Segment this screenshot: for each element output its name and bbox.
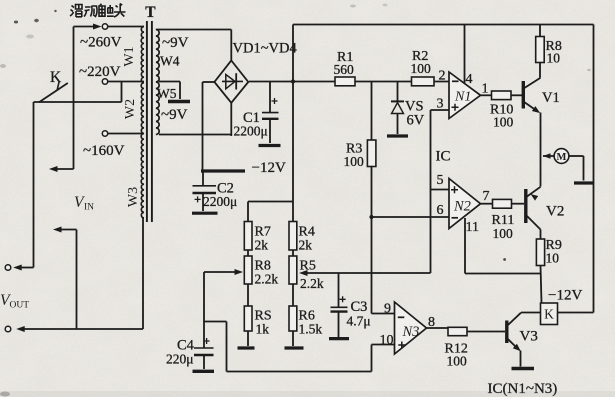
svg-text:2200μ: 2200μ [234, 124, 268, 139]
svg-text:6V: 6V [407, 113, 425, 129]
svg-text:100: 100 [447, 354, 468, 369]
svg-text:3: 3 [437, 97, 444, 112]
svg-text:V2: V2 [546, 204, 564, 220]
svg-text:6: 6 [437, 203, 444, 218]
svg-text:11: 11 [466, 220, 479, 235]
svg-text:W4: W4 [160, 54, 180, 69]
svg-text:W3: W3 [126, 187, 141, 207]
svg-text:2k: 2k [255, 238, 269, 253]
svg-text:V3: V3 [520, 329, 538, 345]
svg-text:~220V: ~220V [79, 64, 121, 80]
svg-text:W1: W1 [122, 46, 137, 66]
svg-text:W2: W2 [123, 99, 138, 119]
svg-text:−12V: −12V [252, 160, 286, 176]
svg-text:220μ: 220μ [166, 352, 194, 367]
svg-text:N1: N1 [454, 90, 471, 105]
svg-text:OUT: OUT [10, 301, 30, 311]
svg-text:2.2k: 2.2k [255, 272, 279, 287]
svg-text:560: 560 [334, 62, 355, 77]
svg-text:IN: IN [84, 203, 94, 213]
svg-text:V1: V1 [542, 90, 560, 106]
svg-text:100: 100 [411, 61, 432, 76]
svg-text:1.5k: 1.5k [299, 322, 323, 337]
svg-text:N2: N2 [453, 199, 471, 215]
svg-text:W5: W5 [157, 86, 177, 101]
svg-text:N3: N3 [402, 324, 420, 340]
svg-text:4: 4 [466, 72, 473, 87]
svg-text:10: 10 [547, 51, 561, 66]
svg-text:K: K [50, 69, 62, 86]
svg-text:~260V: ~260V [80, 35, 122, 51]
svg-text:−12V: −12V [548, 288, 582, 304]
svg-text:2200μ: 2200μ [203, 194, 237, 209]
svg-text:~9V: ~9V [162, 35, 189, 51]
svg-text:10: 10 [546, 251, 560, 266]
svg-text:VD1~VD4: VD1~VD4 [233, 41, 298, 57]
svg-text:2.2k: 2.2k [300, 276, 324, 291]
svg-text:8: 8 [428, 315, 435, 330]
svg-text:100: 100 [493, 115, 514, 130]
svg-text:IC: IC [436, 149, 451, 165]
svg-text:R5: R5 [300, 259, 316, 274]
svg-text:5: 5 [437, 173, 444, 188]
svg-text:T: T [145, 4, 156, 21]
svg-text:100: 100 [344, 154, 365, 169]
svg-text:1: 1 [482, 82, 489, 97]
svg-text:2k: 2k [299, 238, 313, 253]
svg-text:100: 100 [493, 226, 514, 241]
svg-text:~9V: ~9V [161, 107, 188, 123]
svg-text:M: M [557, 152, 567, 163]
svg-text:9: 9 [384, 302, 391, 317]
svg-text:~160V: ~160V [83, 143, 125, 159]
svg-text:10: 10 [380, 333, 394, 348]
svg-text:7: 7 [483, 189, 490, 204]
svg-text:K: K [544, 307, 554, 322]
svg-text:4.7μ: 4.7μ [347, 314, 371, 329]
svg-text:2: 2 [439, 69, 446, 84]
svg-text:1k: 1k [256, 322, 270, 337]
